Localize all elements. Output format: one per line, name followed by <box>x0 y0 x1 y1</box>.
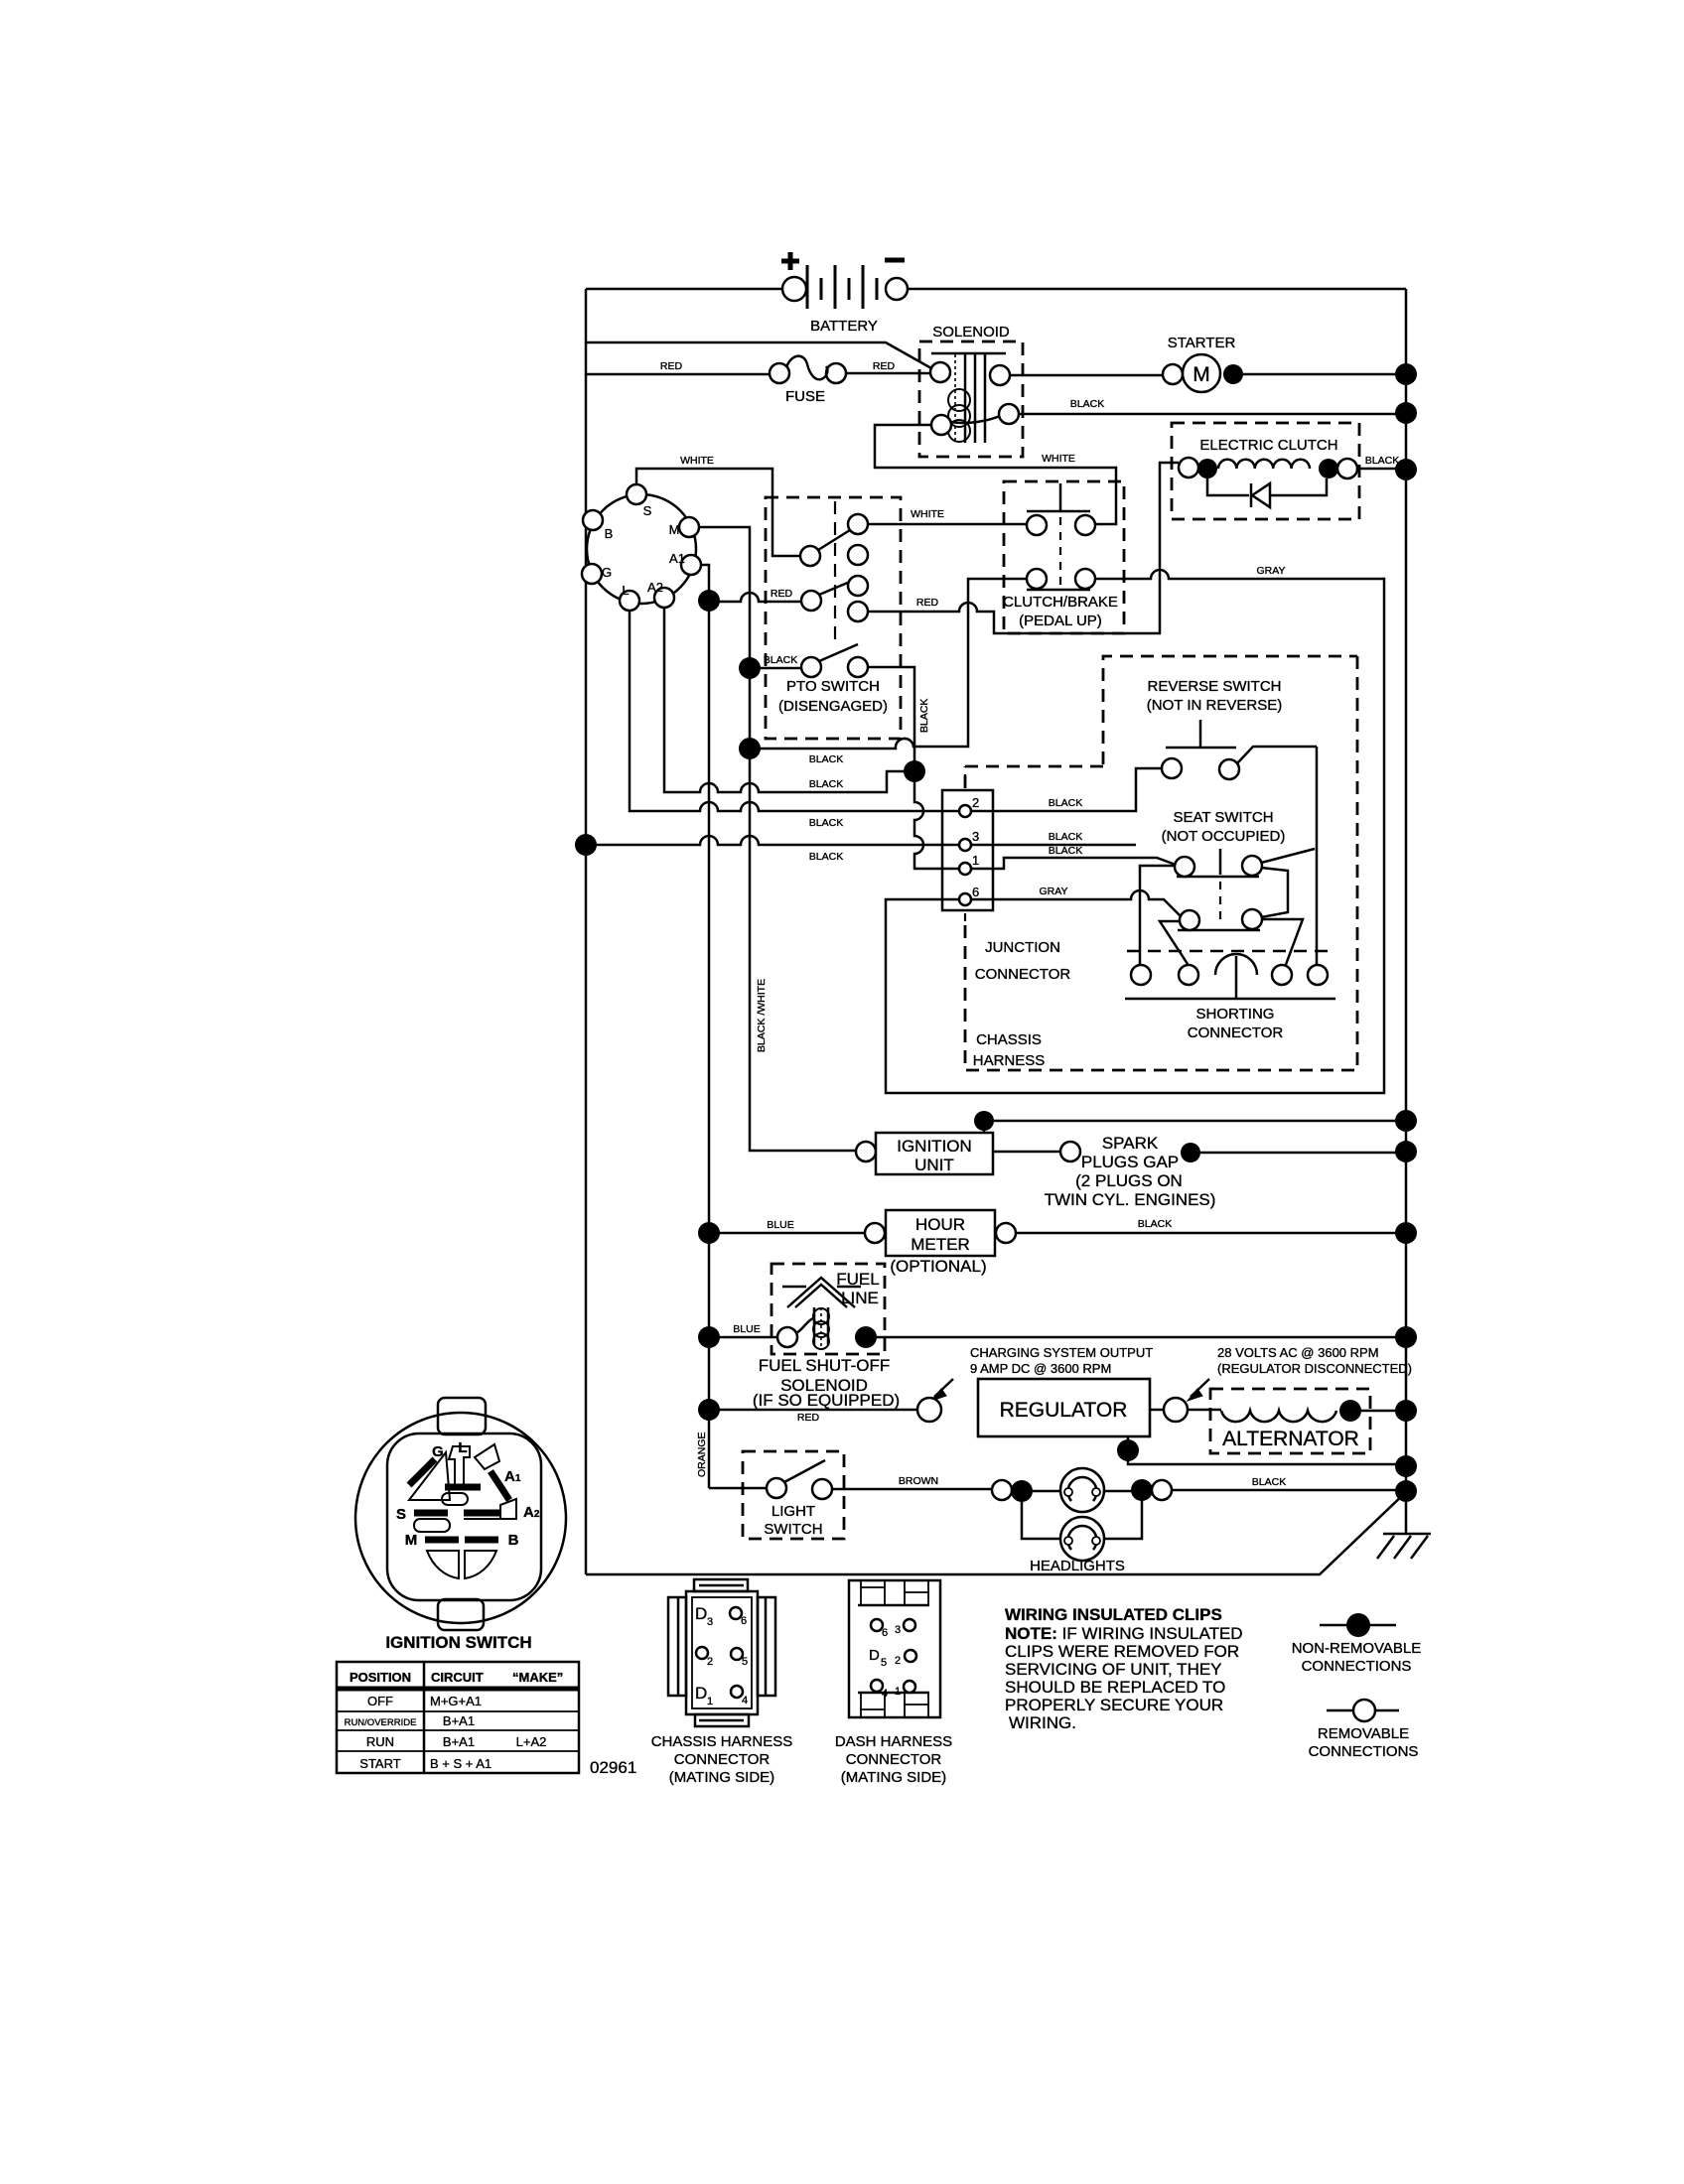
fuel shut-off solenoid <box>772 1264 885 1354</box>
svg-text:RED: RED <box>771 588 793 600</box>
svg-text:2: 2 <box>972 795 979 810</box>
wire pin2 to reverse switch <box>971 768 1162 811</box>
wire: battery feed to solenoid (diagonal) <box>586 342 931 368</box>
svg-text:DASH HARNESS: DASH HARNESS <box>835 1733 952 1750</box>
svg-text:CHARGING SYSTEM OUTPUT: CHARGING SYSTEM OUTPUT <box>970 1345 1153 1360</box>
diode CR1 <box>1207 478 1249 495</box>
svg-text:SERVICING OF UNIT, THEY: SERVICING OF UNIT, THEY <box>1005 1660 1222 1679</box>
svg-text:L: L <box>458 1439 467 1456</box>
svg-text:FUEL SHUT-OFF: FUEL SHUT-OFF <box>759 1356 891 1375</box>
wire solenoid lower-left to clutch/brake (WHITE) <box>875 425 1116 524</box>
node fuel blue <box>698 1326 720 1348</box>
svg-text:CONNECTIONS: CONNECTIONS <box>1309 1743 1419 1760</box>
battery B1 <box>781 252 908 335</box>
svg-text:L: L <box>622 583 629 598</box>
svg-text:ALTERNATOR: ALTERNATOR <box>1222 1428 1359 1450</box>
svg-text:M+G+A1: M+G+A1 <box>430 1694 482 1708</box>
svg-text:WHITE: WHITE <box>680 455 714 467</box>
svg-text:4: 4 <box>742 1695 748 1706</box>
svg-text:SPARK: SPARK <box>1102 1134 1159 1153</box>
svg-text:2: 2 <box>895 1655 901 1667</box>
svg-text:B + S + A1: B + S + A1 <box>430 1756 491 1771</box>
wire: fuse line <box>586 373 770 376</box>
wire gray junction pin6 to seat switch <box>970 890 1181 916</box>
svg-text:CHASSIS: CHASSIS <box>976 1031 1042 1048</box>
svg-text:BATTERY: BATTERY <box>810 318 878 335</box>
wire PTO black right down to junction pin1 (weave) <box>868 667 958 869</box>
svg-text:BLACK: BLACK <box>809 817 843 829</box>
wire seat UR to LR <box>1261 868 1288 917</box>
svg-text:6: 6 <box>882 1627 888 1639</box>
wire fuel to rail <box>866 1336 1406 1339</box>
svg-text:RED: RED <box>916 597 939 609</box>
wire M terminal feeder (BLACK/WHITE) <box>699 527 856 1151</box>
svg-text:WHITE: WHITE <box>911 508 944 520</box>
svg-text:4: 4 <box>882 1688 888 1700</box>
svg-text:(OPTIONAL): (OPTIONAL) <box>890 1257 986 1276</box>
svg-text:B+A1: B+A1 <box>443 1734 475 1749</box>
wire L terminal to junction pin2 (BLACK) <box>630 611 958 811</box>
svg-text:BLACK: BLACK <box>918 699 930 733</box>
legend: non-removable connections <box>1292 1613 1422 1675</box>
svg-text:CONNECTOR: CONNECTOR <box>674 1751 771 1768</box>
svg-text:CLIPS WERE REMOVED FOR: CLIPS WERE REMOVED FOR <box>1005 1642 1239 1661</box>
svg-text:LINE: LINE <box>841 1289 879 1307</box>
svg-text:RUN/OVERRIDE: RUN/OVERRIDE <box>345 1717 417 1728</box>
svg-text:S: S <box>396 1506 406 1523</box>
regulator <box>917 1379 1150 1436</box>
svg-text:PLUGS GAP: PLUGS GAP <box>1081 1153 1179 1171</box>
node clutch line junction <box>739 738 761 759</box>
electric clutch <box>1172 423 1359 519</box>
svg-text:3: 3 <box>707 1616 713 1628</box>
svg-text:BLACK: BLACK <box>809 753 843 765</box>
svg-text:ORANGE: ORANGE <box>696 1432 708 1477</box>
svg-text:SHOULD BE REPLACED TO: SHOULD BE REPLACED TO <box>1005 1678 1225 1697</box>
svg-text:BROWN: BROWN <box>899 1475 938 1487</box>
wire regulator bottom to rail <box>1128 1436 1406 1464</box>
svg-text:A1: A1 <box>669 551 685 566</box>
node: RED junction on A1 feeder <box>698 590 720 612</box>
wire pin1 to seat switch <box>971 858 1176 869</box>
junction connector <box>942 774 1070 983</box>
svg-text:M: M <box>669 522 680 537</box>
legend: removable connections <box>1309 1700 1419 1760</box>
chassis harness connector (mating side) <box>651 1579 793 1786</box>
wiring insulated clips note <box>1005 1605 1243 1732</box>
ignition switch table <box>337 1662 579 1773</box>
svg-text:6: 6 <box>741 1615 747 1627</box>
svg-text:(MATING SIDE): (MATING SIDE) <box>841 1769 946 1786</box>
svg-text:1: 1 <box>895 1686 901 1698</box>
svg-text:B+A1: B+A1 <box>443 1713 475 1728</box>
svg-text:RUN: RUN <box>366 1734 394 1749</box>
svg-text:WIRING.: WIRING. <box>1009 1713 1076 1732</box>
svg-text:RED: RED <box>660 360 683 372</box>
svg-text:REGULATOR: REGULATOR <box>1000 1399 1128 1422</box>
svg-text:BLACK: BLACK <box>1049 845 1082 857</box>
svg-text:HEADLIGHTS: HEADLIGHTS <box>1030 1558 1125 1574</box>
svg-text:FUSE: FUSE <box>785 388 825 405</box>
svg-text:L+A2: L+A2 <box>516 1734 547 1749</box>
svg-text:1: 1 <box>972 853 979 868</box>
svg-text:STARTER: STARTER <box>1168 335 1236 351</box>
svg-text:CONNECTOR: CONNECTOR <box>846 1751 942 1768</box>
svg-text:ELECTRIC CLUTCH: ELECTRIC CLUTCH <box>1199 437 1337 454</box>
starter motor M <box>1163 335 1417 392</box>
svg-text:CONNECTOR: CONNECTOR <box>1188 1024 1284 1041</box>
svg-text:M: M <box>405 1532 418 1549</box>
svg-text:D: D <box>695 1604 707 1623</box>
wire blue to hour meter <box>709 1232 865 1235</box>
svg-text:(MATING SIDE): (MATING SIDE) <box>669 1769 774 1786</box>
svg-text:(NOT IN REVERSE): (NOT IN REVERSE) <box>1147 697 1282 714</box>
svg-text:SEAT SWITCH: SEAT SWITCH <box>1173 809 1273 826</box>
wire battery- to right rail <box>908 288 1406 291</box>
wire battery+ to left rail <box>586 288 782 291</box>
alternator <box>1188 1389 1370 1453</box>
wire PTO red out to electric clutch <box>868 463 1179 633</box>
svg-text:SWITCH: SWITCH <box>764 1521 822 1538</box>
wire left rail to junction pin3 (BLACK) <box>586 836 958 845</box>
svg-text:BLACK: BLACK <box>1070 398 1104 410</box>
svg-text:POSITION: POSITION <box>350 1670 411 1685</box>
svg-text:28 VOLTS AC @ 3600 RPM: 28 VOLTS AC @ 3600 RPM <box>1217 1345 1379 1360</box>
svg-text:D: D <box>869 1647 880 1664</box>
svg-text:BLACK: BLACK <box>1138 1218 1172 1230</box>
clutch/brake switch (pedal up) <box>1003 481 1124 633</box>
chassis harness dashed box <box>1103 656 1357 764</box>
svg-text:3: 3 <box>972 829 979 844</box>
wire pin3 right <box>971 844 1136 847</box>
svg-text:(PEDAL UP): (PEDAL UP) <box>1019 613 1102 629</box>
dash harness connector (mating side) <box>835 1580 952 1786</box>
reverse switch <box>1147 678 1317 779</box>
headlight 1 <box>1060 1468 1104 1512</box>
node: left rail junction <box>575 834 597 856</box>
svg-text:1: 1 <box>707 1696 713 1707</box>
svg-text:SOLENOID: SOLENOID <box>932 324 1010 341</box>
svg-text:NON-REMOVABLE: NON-REMOVABLE <box>1292 1640 1422 1657</box>
svg-text:02961: 02961 <box>590 1758 636 1777</box>
svg-text:REVERSE SWITCH: REVERSE SWITCH <box>1147 678 1281 695</box>
wire seat LR to shorting pin3 <box>1262 919 1303 970</box>
svg-text:IGNITION SWITCH: IGNITION SWITCH <box>385 1633 531 1652</box>
ignition switch (schematic circle) <box>582 484 701 611</box>
ground <box>1377 1534 1431 1559</box>
svg-text:A2: A2 <box>647 580 663 595</box>
svg-text:METER: METER <box>911 1235 970 1254</box>
svg-text:S: S <box>643 503 652 518</box>
wire gray from clutch/brake <box>886 570 1384 1093</box>
svg-text:PROPERLY SECURE YOUR: PROPERLY SECURE YOUR <box>1005 1696 1223 1714</box>
svg-text:NOTE: IF WIRING INSULATED: NOTE: IF WIRING INSULATED <box>1005 1624 1243 1643</box>
svg-text:G: G <box>602 565 612 580</box>
wire: left rail (battery + / G terminal down to bottom) <box>585 289 588 1574</box>
svg-text:CONNECTIONS: CONNECTIONS <box>1302 1658 1412 1675</box>
svg-text:PTO SWITCH: PTO SWITCH <box>786 678 880 695</box>
svg-text:GRAY: GRAY <box>1040 886 1068 897</box>
wire solenoid lower contact to rail (BLACK) <box>1019 413 1406 416</box>
svg-text:(IF SO EQUIPPED): (IF SO EQUIPPED) <box>753 1391 900 1410</box>
svg-text:BLUE: BLUE <box>733 1323 760 1335</box>
svg-text:D: D <box>695 1684 707 1703</box>
fuse F1 <box>770 356 846 405</box>
svg-text:WHITE: WHITE <box>1042 453 1075 465</box>
svg-text:BLACK: BLACK <box>764 654 797 666</box>
svg-text:“MAKE”: “MAKE” <box>512 1670 563 1685</box>
svg-text:BLACK: BLACK <box>809 778 843 790</box>
wire seat UL to shorting pin1 <box>1140 866 1175 964</box>
svg-text:M: M <box>1193 363 1210 386</box>
svg-text:RED: RED <box>873 360 896 372</box>
svg-text:6: 6 <box>972 885 979 899</box>
svg-text:CHASSIS HARNESS: CHASSIS HARNESS <box>651 1733 793 1750</box>
svg-text:LIGHT: LIGHT <box>772 1503 815 1520</box>
svg-text:(REGULATOR DISCONNECTED): (REGULATOR DISCONNECTED) <box>1217 1361 1412 1376</box>
spark plugs gap <box>1045 1134 1216 1209</box>
solenoid <box>919 324 1023 457</box>
shorting connector <box>1125 951 1335 1041</box>
ignition unit <box>856 1111 994 1174</box>
wire A1 terminal feeder <box>700 565 709 1488</box>
svg-text:BLACK: BLACK <box>1252 1476 1286 1488</box>
svg-text:3: 3 <box>895 1624 901 1636</box>
headlight 2 <box>1022 1490 1142 1561</box>
wire RED to PTO <box>709 593 801 602</box>
svg-text:TWIN CYL. ENGINES): TWIN CYL. ENGINES) <box>1045 1190 1216 1209</box>
svg-text:9 AMP DC @ 3600 RPM: 9 AMP DC @ 3600 RPM <box>970 1361 1111 1376</box>
wire brown to headlights <box>832 1488 992 1491</box>
wire ignition unit top to rail <box>984 1120 1406 1123</box>
svg-text:5: 5 <box>881 1657 887 1669</box>
wire ignition unit to spark plug <box>993 1151 1060 1154</box>
svg-text:BLACK: BLACK <box>809 851 843 863</box>
svg-text:CIRCUIT: CIRCUIT <box>431 1670 484 1685</box>
svg-text:OFF: OFF <box>367 1694 393 1708</box>
svg-text:BLACK /WHITE: BLACK /WHITE <box>756 979 768 1052</box>
svg-text:B: B <box>508 1532 519 1549</box>
node A2-line / PTO-black junction <box>904 760 925 782</box>
svg-text:B: B <box>605 526 614 541</box>
wire reverse to shorting pin4 <box>1316 747 1319 964</box>
svg-text:(2 PLUGS ON: (2 PLUGS ON <box>1075 1171 1183 1190</box>
svg-text:HOUR: HOUR <box>915 1215 965 1234</box>
svg-text:SHORTING: SHORTING <box>1196 1006 1275 1023</box>
svg-text:JUNCTION: JUNCTION <box>985 939 1060 956</box>
PTO switch <box>766 497 901 739</box>
svg-text:IGNITION: IGNITION <box>897 1137 972 1156</box>
svg-text:REMOVABLE: REMOVABLE <box>1318 1725 1409 1742</box>
svg-text:2: 2 <box>707 1656 713 1668</box>
svg-text:(DISENGAGED): (DISENGAGED) <box>778 698 888 715</box>
svg-text:START: START <box>359 1756 400 1771</box>
wire hour meter to rail (BLACK) <box>1016 1232 1406 1235</box>
wire PTO white out <box>868 523 1027 526</box>
wire: right rail <box>1405 289 1408 1534</box>
wire bottom return <box>586 1492 1406 1574</box>
node red regulator feed <box>698 1399 720 1421</box>
svg-text:GRAY: GRAY <box>1257 565 1286 577</box>
wire solenoid to starter <box>1010 374 1163 377</box>
wire A2 terminal to junction (BLACK) <box>664 608 905 792</box>
wire orange to light switch <box>709 1487 767 1490</box>
seat switch <box>1162 809 1286 930</box>
wire S terminal (WHITE) to PTO <box>636 469 800 556</box>
node hour meter blue <box>698 1222 720 1244</box>
svg-text:RED: RED <box>797 1412 820 1424</box>
svg-text:BLACK: BLACK <box>1365 455 1399 467</box>
svg-text:BLACK: BLACK <box>1049 831 1082 843</box>
svg-text:UNIT: UNIT <box>914 1156 954 1174</box>
svg-text:HARNESS: HARNESS <box>973 1052 1046 1069</box>
svg-text:CONNECTOR: CONNECTOR <box>975 966 1071 983</box>
svg-text:WIRING INSULATED CLIPS: WIRING INSULATED CLIPS <box>1005 1605 1222 1624</box>
svg-text:BLUE: BLUE <box>767 1219 793 1231</box>
svg-text:BLACK: BLACK <box>1049 797 1082 809</box>
wire seat LL to shorting pin2 <box>1160 921 1188 964</box>
svg-text:5: 5 <box>742 1656 748 1668</box>
svg-text:(NOT OCCUPIED): (NOT OCCUPIED) <box>1162 828 1286 845</box>
wire PTO black left <box>750 667 801 670</box>
wire seat UR diagonal to reverse riser <box>1261 849 1315 863</box>
wire clutch/brake lower-left to M feeder <box>750 579 1027 749</box>
hour meter <box>865 1210 1016 1276</box>
light switch <box>743 1451 844 1539</box>
node PTO black left <box>739 657 761 679</box>
svg-text:CLUTCH/BRAKE: CLUTCH/BRAKE <box>1003 594 1118 611</box>
ignition switch (key face drawing) <box>355 1398 566 1630</box>
